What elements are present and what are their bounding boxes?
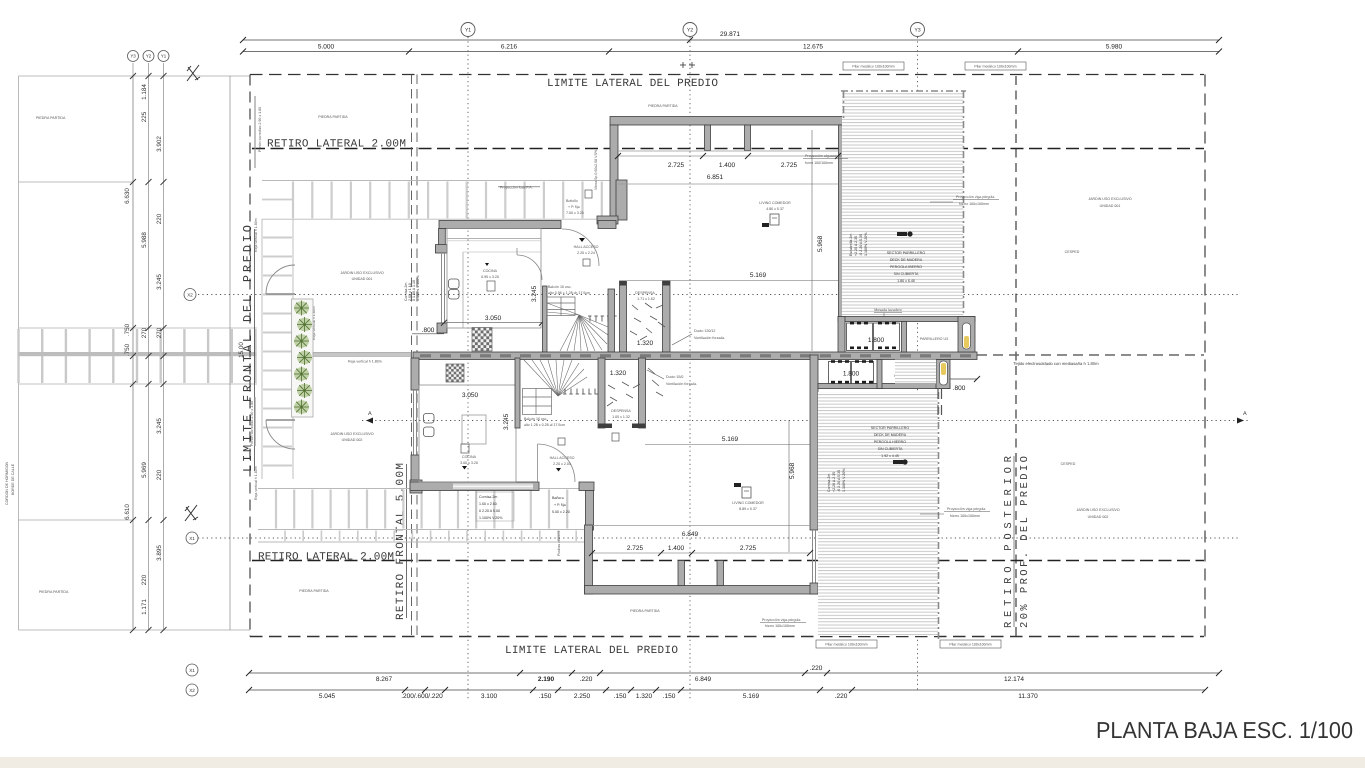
svg-text:5.169: 5.169 [750,272,767,279]
axis circle Y3 left [128,51,139,62]
wall upper-unit left vertical [610,125,618,220]
svg-text:0 2.20 A 5.00: 0 2.20 A 5.00 [479,509,500,513]
stair upper landing [547,297,575,316]
window upper-unit left [442,253,445,323]
svg-text:1.100% V.20%: 1.100% V.20% [479,516,503,520]
svg-text:220: 220 [156,213,163,224]
cornisa rotated text upper deck [849,232,868,256]
svg-text:270: 270 [141,327,148,338]
axis circle X1 left [186,532,198,544]
svg-text:1.800: 1.800 [868,337,885,344]
parrillero upper divider wall [902,322,907,353]
pilar metalico label box [940,640,1001,648]
lower porch tile band row1 [258,489,585,543]
svg-text:6.630: 6.630 [124,188,131,204]
upper deck hatch (sector parrillero U1) [842,91,964,319]
vertical walkway tiles to unit1 gate [262,219,293,479]
svg-text:PIEDRA PARTIDA: PIEDRA PARTIDA [318,115,348,119]
wall upper kitchen left jamb [439,229,446,253]
plant 6 [297,383,312,398]
interior line upper living [618,183,839,185]
window post lower 1 [678,561,685,586]
upper deck dash-dot borders [841,91,966,319]
svg-text:LIVING COMEDOR: LIVING COMEDOR [732,501,764,505]
svg-text:Y2: Y2 [146,54,152,59]
ducto callout upper [672,334,692,345]
svg-text:Proyección alguaceyal: Proyección alguaceyal [805,154,841,158]
window in lower front wall [453,484,533,490]
svg-text:Y1: Y1 [465,28,471,34]
svg-text:COCINA: COCINA [462,455,477,459]
vertical dim 5.968 upper [811,130,813,351]
svg-text:.150: .150 [539,693,552,700]
svg-text:-0 2.20 A 5.35: -0 2.20 A 5.35 [859,234,863,256]
gate door arc unit1 [266,265,295,294]
svg-text:3.245: 3.245 [531,285,538,302]
svg-text:225: 225 [141,111,148,122]
grills lower [829,362,874,384]
svg-text:PIEDRA PARTIDA: PIEDRA PARTIDA [630,609,660,613]
svg-text:5.000: 5.000 [318,44,335,51]
svg-text:2.725: 2.725 [627,545,644,552]
svg-text:RETIRO LATERAL 2.00M: RETIRO LATERAL 2.00M [258,552,394,564]
plant 7 [294,400,309,415]
svg-text:Proyección viga pérgola: Proyección viga pérgola [947,507,985,511]
svg-text:JARDIN USO EXCLUSIVO: JARDIN USO EXCLUSIVO [1076,508,1120,512]
wall lower-unit left lower piece [411,455,419,482]
svg-text:5.968: 5.968 [789,462,796,479]
svg-text:JARDIN USO EXCLUSIVO: JARDIN USO EXCLUSIVO [340,271,384,275]
pergola posts lower [938,389,942,416]
svg-text:.800: .800 [422,327,435,334]
svg-text:5.988: 5.988 [141,232,148,248]
sector parrillero text upper [887,251,926,283]
svg-text:BORDE DE CALLE: BORDE DE CALLE [11,463,15,495]
window lower-unit left [414,390,417,455]
svg-text:+2.20 A 2.35: +2.20 A 2.35 [832,472,836,492]
svg-text:Y3: Y3 [914,28,920,34]
wall lower-unit right [810,355,818,530]
svg-text:5.980: 5.980 [1106,44,1123,51]
svg-text:X1: X1 [189,668,195,673]
svg-text:JARDIN USO EXCLUSIVO: JARDIN USO EXCLUSIVO [330,432,374,436]
axis circle X2 bottom [186,684,198,696]
property boundary right [1204,75,1206,637]
svg-text:+ P. fija: + P. fija [554,503,566,507]
svg-text:Tejido electrosoldado con medi: Tejido electrosoldado con mediasaña h 1.… [1013,361,1099,366]
svg-text:2.190: 2.190 [538,676,555,683]
window lower-unit right [813,530,816,584]
despensa lower right wall [639,358,646,428]
svg-text:X2: X2 [187,293,193,298]
entry door arc upper hall [562,229,599,266]
left rotated dimension labels [124,84,245,615]
stair lower fan treads [524,360,587,396]
svg-text:DESPENSA: DESPENSA [611,409,631,413]
svg-text:2.725: 2.725 [781,162,798,169]
wall upper-unit front right segment [598,221,616,229]
grills upper [847,323,900,351]
svg-text:1.60 x 2.60: 1.60 x 2.60 [479,502,497,506]
window sill line upper living [618,150,839,152]
svg-text:PIEDRA PARTIDA: PIEDRA PARTIDA [39,590,69,594]
svg-text:7.00 x 3.20: 7.00 x 3.20 [566,211,584,215]
svg-text:Proyección viga pérgola: Proyección viga pérgola [956,195,994,199]
section marker A left [366,411,373,424]
dim 5.169 upper [627,280,838,282]
svg-text:SIN CUBIERTA: SIN CUBIERTA [894,272,919,276]
svg-text:Proyección viga pérgola: Proyección viga pérgola [762,618,800,622]
retiro lateral line top [252,148,1204,150]
driveway tile band across sidewalk [19,328,258,384]
sidewalk area lines left [19,76,251,630]
plant 3 [294,334,309,349]
axis circle Y1 left [158,51,169,62]
sink upper kitchen [449,279,460,299]
svg-text:X1: X1 [189,536,195,541]
svg-text:29.871: 29.871 [720,31,740,38]
gate fence line along frontal boundary bottom [254,397,256,446]
svg-text:Reja vertical h 1.80m: Reja vertical h 1.80m [254,218,258,252]
planter bed with plants [292,299,314,417]
svg-text:5.169: 5.169 [743,693,760,700]
svg-text:hierro 100x100mm: hierro 100x100mm [950,514,980,518]
svg-text:Cornisa 2m: Cornisa 2m [827,474,831,492]
lower deck dash-dot border [938,392,940,640]
svg-text:Cornisa 2m: Cornisa 2m [479,495,497,499]
svg-text:5.969: 5.969 [141,462,148,478]
svg-text:alto 0.96 x 1.28 ch 17.5cm: alto 0.96 x 1.28 ch 17.5cm [548,291,590,295]
svg-text:3.100: 3.100 [481,693,498,700]
despensa lower left wall [598,358,605,428]
cornisa rotated text lower deck [827,468,846,492]
wall upper-unit top [610,117,847,126]
svg-text:Bañera: Bañera [552,496,564,500]
chain tick marks [130,73,167,633]
party wall between units [413,352,977,360]
svg-text:8.89 x 5.37: 8.89 x 5.37 [739,507,757,511]
despensa upper right wall [663,281,671,352]
svg-text:5.968: 5.968 [817,235,824,252]
svg-text:270: 270 [156,327,163,338]
svg-text:Y2: Y2 [687,28,693,34]
svg-text:1.92 x 4.45: 1.92 x 4.45 [881,454,899,458]
svg-text:A: A [368,411,372,417]
stair lower rail dashes [563,393,601,395]
svg-text:Botiello: Botiello [566,199,578,203]
svg-text:Pilar metálico 100x100mm: Pilar metálico 100x100mm [852,65,894,69]
section marker A right [1237,411,1247,424]
section line A-A dotted [362,420,1248,422]
despensa lower vent strokes [607,368,663,406]
sector parrillero text lower [871,426,910,458]
svg-text:3.050: 3.050 [485,315,502,322]
svg-text:1.184: 1.184 [141,84,148,100]
axis circle Y1 top [461,23,475,37]
axis circle X2 left [184,289,196,301]
svg-text:12.675: 12.675 [803,44,823,51]
wall corridor upper [608,289,615,352]
svg-text:8.267: 8.267 [376,676,393,683]
kitchen room lower outline [419,385,516,482]
plant 5 [294,367,309,382]
window post upper 2 [745,125,751,151]
svg-text:LIVING COMEDOR: LIVING COMEDOR [759,201,791,205]
svg-text:JARDIN USO EXCLUSIVO: JARDIN USO EXCLUSIVO [1088,197,1132,201]
break symbol left-lower [185,505,198,521]
party axis band to street [19,352,257,356]
wall porch right lower [586,491,594,531]
parrillero lower divider wall [877,360,882,389]
plant 4 [297,350,312,365]
wall lower-unit front right segment [579,482,594,491]
svg-text:1.71 x 1.62: 1.71 x 1.62 [637,297,655,301]
stair upper fan treads [547,303,613,351]
svg-text:.200/.600/.220: .200/.600/.220 [401,693,443,700]
retiro posterior dashed line [1015,76,1017,636]
svg-text:3.902: 3.902 [156,136,163,152]
svg-text:DECK DE MADERA: DECK DE MADERA [874,433,907,437]
svg-text:Reja vertical h 1.80m: Reja vertical h 1.80m [254,466,258,500]
svg-text:Ducto 15/0: Ducto 15/0 [666,375,683,379]
window post lower 2 [717,561,724,586]
svg-text:alto 1.28 x 0.28 al 17.5cm: alto 1.28 x 0.28 al 17.5cm [524,423,565,427]
svg-text:PERGOLA HIERRO: PERGOLA HIERRO [874,440,906,444]
wall upper-unit step left [597,216,618,224]
svg-text:UNIDAD 001: UNIDAD 001 [1100,204,1121,208]
svg-text:3.895: 3.895 [156,545,163,561]
svg-text:3.245: 3.245 [156,418,163,434]
svg-text:PIEDRA PARTIDA: PIEDRA PARTIDA [648,104,678,108]
svg-text:1.320: 1.320 [636,693,653,700]
svg-text:1.320: 1.320 [610,370,627,377]
svg-text:1.05 x 1.32: 1.05 x 1.32 [612,415,630,419]
despensa upper left wall [620,281,627,352]
axis circle X1 bottom [186,664,198,676]
svg-text:5.045: 5.045 [319,693,336,700]
parrillero upper right casing [958,317,975,353]
retiro lateral line bottom [252,560,1204,562]
svg-text:11.370: 11.370 [1018,693,1038,700]
stair upper rail dashes [588,315,626,317]
svg-text:.800: .800 [953,385,966,392]
wall lower-unit right bottom corner [810,583,818,594]
wall lower-unit front left segment [410,482,539,491]
svg-text:1.320: 1.320 [637,340,654,347]
svg-text:1.80 x 6.45: 1.80 x 6.45 [897,279,915,283]
chimney slot lower [940,361,948,385]
svg-text:CESPED: CESPED [1065,250,1080,254]
break symbol top-left [187,65,200,81]
svg-text:PARRILLERO U3: PARRILLERO U3 [920,337,948,341]
svg-text:RETIRO LATERAL 2.00M: RETIRO LATERAL 2.00M [267,139,406,151]
svg-text:Mesada lavadero: Mesada lavadero [874,308,902,312]
svg-text:SECTOR PARRILLERO: SECTOR PARRILLERO [871,426,910,430]
svg-text:Portón corredizo 2.90 x 1.80: Portón corredizo 2.90 x 1.80 [258,107,262,152]
svg-text:UNIDAD 001: UNIDAD 001 [352,277,373,281]
svg-text:LIMITE LATERAL DEL PREDIO: LIMITE LATERAL DEL PREDIO [547,78,718,90]
svg-text:Pilar metálico 100x100mm: Pilar metálico 100x100mm [974,65,1016,69]
svg-text:.150: .150 [614,693,627,700]
stair upper left wall [543,286,548,352]
svg-text:Pilar metálico 100x100mm: Pilar metálico 100x100mm [949,643,991,647]
svg-text:COCINA: COCINA [483,269,498,273]
svg-text:Y1: Y1 [161,54,167,59]
svg-text:Proyección losa P.A.: Proyección losa P.A. [500,186,533,190]
stair lower left wall [515,358,520,428]
footer beige strip [0,757,1365,768]
svg-text:horm 100/100mm: horm 100/100mm [805,161,833,165]
svg-text:220: 220 [156,469,163,480]
svg-text:.220: .220 [835,693,848,700]
svg-text:1.800: 1.800 [843,371,860,378]
svg-text:Portón corredizo 2.90 x 1.80: Portón corredizo 2.90 x 1.80 [250,401,254,446]
svg-text:220: 220 [141,574,148,585]
parrillero upper top wall [838,317,975,322]
svg-text:UNIDAD 002: UNIDAD 002 [1088,515,1109,519]
svg-text:Ventilación forzada: Ventilación forzada [666,382,696,386]
vertical dim 5.968 lower [788,420,790,552]
svg-text:0.95 x 3.20: 0.95 x 3.20 [481,275,499,279]
svg-text:3.245: 3.245 [503,413,510,430]
svg-text:UNIDAD 002: UNIDAD 002 [342,438,363,442]
wall porch side stub upper [616,180,627,220]
property boundary top: LIMITE LATERAL DEL PREDIO [250,74,1204,76]
svg-text:4.86 x 5.37: 4.86 x 5.37 [766,207,784,211]
parrillero lower bottom wall [818,384,950,389]
svg-text:Balcón 16 esc.: Balcón 16 esc. [548,285,572,289]
window post upper 1 [705,125,711,151]
property boundary bottom [250,636,1204,638]
svg-text:hierro 100x100mm: hierro 100x100mm [959,202,989,206]
svg-text:SECTOR PARRILLERO: SECTOR PARRILLERO [887,251,926,255]
svg-text:6.849: 6.849 [695,676,712,683]
pilar metalico label box [843,62,904,70]
svg-text:Escalerilla 2m: Escalerilla 2m [849,234,853,256]
svg-text:3.245: 3.245 [156,274,163,290]
gate door arc unit2 [266,420,295,449]
kitchen island lower [462,415,486,444]
svg-text:.750: .750 [124,323,131,336]
svg-text:1.400: 1.400 [719,162,736,169]
wall upper-unit right [839,125,846,355]
pilar metalico label box [965,62,1026,70]
svg-text:Piedras cement.: Piedras cement. [557,530,561,556]
dim line upper front 2.725/1.400/2.725 [618,155,838,157]
kitchen door arc upper [517,255,542,280]
svg-text:.150: .150 [663,693,676,700]
svg-text:A: A [1243,411,1247,417]
svg-text:5.169: 5.169 [722,436,739,443]
svg-text:1.171: 1.171 [141,599,148,615]
sink lower kitchen [424,414,435,437]
svg-text:6.851: 6.851 [707,174,724,181]
svg-text:.220: .220 [580,676,593,683]
svg-text:6.216: 6.216 [501,44,518,51]
svg-text:2.725: 2.725 [668,162,685,169]
svg-text:1.400: 1.400 [668,545,685,552]
dim line lower front 2.725/1.400/2.725 [592,552,810,554]
svg-text:-0 2.20 A 5.35: -0 2.20 A 5.35 [837,470,841,492]
stove upper kitchen (checkered) [472,328,492,352]
svg-text:2.725: 2.725 [740,545,757,552]
chimney slot upper [963,323,971,349]
wall lower-unit left upper piece [411,358,419,390]
wall corner block upper kitchen [435,245,447,253]
wall corner block lower kitchen [410,480,422,493]
bottom dimension row 2 [249,689,1205,691]
svg-text:Vitrea 5p 0.60x2.08 V.5%: Vitrea 5p 0.60x2.08 V.5% [594,149,598,190]
medianera fence dashed right of parrillero [977,354,1204,356]
svg-text:1.100% V.20%: 1.100% V.20% [842,468,846,492]
stair lower landing [523,389,552,415]
svg-text:3.050: 3.050 [462,392,479,399]
plant 2 [297,317,312,332]
parrillero lower right casing [936,360,950,389]
svg-text:Y3: Y3 [130,54,136,59]
svg-text:Balcón 16 esc.: Balcón 16 esc. [524,417,548,421]
svg-text:1.100% V.100%: 1.100% V.100% [416,275,420,301]
interior line lower living [593,525,811,527]
svg-text:Ventilación forzada: Ventilación forzada [694,336,724,340]
top dimension line 29.871 [243,40,1219,52]
cornisa rotated text block left of upper kitchen [404,275,420,301]
svg-text:PLANTA BAJA ESC. 1/100: PLANTA BAJA ESC. 1/100 [1096,717,1353,743]
gate fence line along frontal boundary top [254,96,256,168]
retiro frontal dashed double line [411,75,413,637]
svg-text:HALL ACCESO: HALL ACCESO [574,245,599,249]
svg-text:HALL ACCESO: HALL ACCESO [550,456,575,460]
svg-text:LIMITE LATERAL DEL PREDIO: LIMITE LATERAL DEL PREDIO [505,645,678,657]
lower deck hatch (sector parrillero L1) [818,392,938,636]
axis circle Y3 top [911,23,925,37]
fence band between front gardens [313,352,411,356]
entry door arc lower hall [537,444,539,482]
small survey marks below Y2 [680,62,695,68]
vertical axis dotted lines [468,37,918,700]
svg-text:hierro 100x100mm: hierro 100x100mm [765,624,795,628]
svg-text:+ P. fija: + P. fija [568,205,580,209]
wall lower-unit living left [585,525,593,594]
svg-text:SIN CUBIERTA: SIN CUBIERTA [878,447,903,451]
horizontal axis dotted lines X2 X1 [198,295,1240,539]
stove lower kitchen (checkered) [446,364,464,382]
svg-text:DECK DE MADERA: DECK DE MADERA [890,258,923,262]
svg-text:Reja vertical h 1.80m: Reja vertical h 1.80m [348,360,382,364]
wall upper-unit front left segment [439,221,561,229]
svg-text:1.100% V.20%: 1.100% V.20% [864,232,868,256]
svg-text:.220: .220 [810,665,823,672]
bañera text block lower porch [552,496,570,514]
plant 1 [294,301,309,316]
svg-text:DESPENSA: DESPENSA [635,291,655,295]
svg-text:6.610: 6.610 [124,504,131,520]
property boundary left (frontal) [249,75,251,637]
dim 5.169 lower [645,444,810,446]
svg-text:.750: .750 [124,343,131,356]
svg-text:2.20 x 2.04: 2.20 x 2.04 [553,462,571,466]
axis circle Y2 top [683,23,697,37]
svg-text:+2.20 A 2.35: +2.20 A 2.35 [854,236,858,256]
svg-text:PERGOLA IBERRO: PERGOLA IBERRO [890,265,922,269]
ducto callout lower [647,370,664,379]
left axis chain lines Y3 Y2 Y1 [133,63,230,630]
svg-text:Ducto 120/12: Ducto 120/12 [694,329,715,333]
svg-text:2.250: 2.250 [574,693,591,700]
svg-text:2.20 x 2.24: 2.20 x 2.24 [577,251,595,255]
wall lower-unit bottom [585,586,819,595]
axis circle Y2 left [143,51,154,62]
